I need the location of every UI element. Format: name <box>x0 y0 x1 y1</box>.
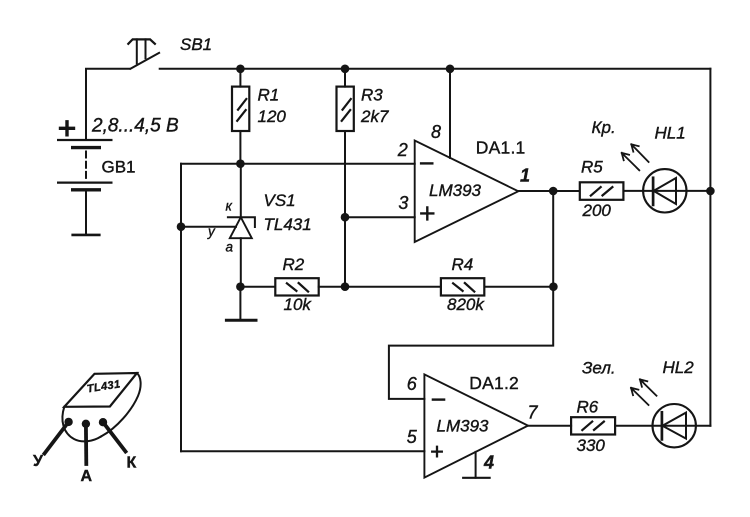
wire R3 top lead <box>344 69 346 87</box>
wire DA1.1 output <box>518 190 579 192</box>
svg-text:10k: 10k <box>284 295 313 314</box>
svg-text:Кр.: Кр. <box>592 118 616 137</box>
svg-text:К: К <box>127 455 137 472</box>
LED HL1 arrow 2 <box>631 144 648 162</box>
resistor R5 body <box>580 182 624 200</box>
wire from R4 node down and to DA1.2 pin6 <box>389 287 553 399</box>
battery GB1 plate short top <box>73 146 100 149</box>
svg-text:HL2: HL2 <box>663 358 695 377</box>
wire TL431 cathode lead <box>240 164 242 218</box>
switch SB1 cap <box>128 39 155 43</box>
svg-text:3: 3 <box>398 193 408 213</box>
wire R3 bottom lead long <box>344 131 346 287</box>
wire top rail right segment <box>160 68 711 70</box>
package leg К <box>103 422 126 451</box>
svg-text:GB1: GB1 <box>102 158 136 177</box>
svg-text:8: 8 <box>431 122 441 142</box>
wire top rail left segment <box>86 69 129 140</box>
package TO-92 bottom arc <box>62 407 101 442</box>
wire R1 top lead <box>239 69 241 87</box>
svg-text:VS1: VS1 <box>264 191 296 210</box>
op-amp DA1.2 triangle <box>424 374 528 477</box>
wire R2 left lead <box>240 286 274 288</box>
svg-text:R6: R6 <box>577 397 599 416</box>
wire right rail <box>709 69 711 426</box>
node dot HL1 rail <box>706 187 715 196</box>
node dot left rail control <box>177 222 186 231</box>
package pin dot 2 <box>82 420 90 428</box>
svg-text:LM393: LM393 <box>429 181 482 200</box>
node dot pin8 top <box>446 65 455 74</box>
wire R2 right lead <box>319 286 345 288</box>
svg-text:R3: R3 <box>361 86 383 105</box>
wire TL431 control (у) <box>181 226 236 228</box>
resistor R3 power marks <box>342 99 351 121</box>
wire R1 bottom lead <box>239 131 241 164</box>
svg-text:а: а <box>226 240 234 255</box>
resistor R4 body <box>441 278 484 295</box>
svg-text:820k: 820k <box>447 295 485 314</box>
node dot R1 top <box>236 65 245 74</box>
svg-text:У: У <box>33 453 44 470</box>
package leg У <box>45 422 69 454</box>
svg-text:120: 120 <box>258 107 287 126</box>
node dot R2 right <box>341 282 350 291</box>
LED HL1 cathode bar <box>652 178 655 205</box>
resistor R6 power marks <box>582 422 604 431</box>
op-amp DA1.2 minus <box>433 398 444 400</box>
svg-text:LM393: LM393 <box>437 417 490 436</box>
LED HL2 arrow 2 <box>640 379 657 395</box>
svg-text:R1: R1 <box>258 86 280 105</box>
battery plus sign <box>61 122 74 135</box>
LED HL1 triangle <box>654 178 676 204</box>
svg-text:7: 7 <box>528 402 539 422</box>
package pin dot 3 <box>99 418 107 426</box>
svg-text:5: 5 <box>407 427 418 447</box>
svg-text:HL1: HL1 <box>655 123 686 142</box>
wire pin3 <box>345 216 415 218</box>
LED HL2 arrow 1 <box>631 388 649 405</box>
wire TL431 anode lead <box>240 238 242 287</box>
svg-text:6: 6 <box>407 374 418 394</box>
package leg А <box>84 424 88 464</box>
node dot R1 bottom junction <box>236 159 245 168</box>
svg-text:TL431: TL431 <box>264 215 312 234</box>
LED HL2 circle <box>653 404 696 447</box>
op-amp DA1.1 plus <box>421 207 433 219</box>
resistor R4 power marks <box>453 283 474 292</box>
ground battery terminal bar <box>73 234 100 237</box>
node dot R3 top <box>341 65 350 74</box>
op-amp DA1.2 plus <box>432 447 442 457</box>
wire R5 to HL1 to rail <box>624 190 710 192</box>
svg-text:DA1.1: DA1.1 <box>476 138 526 158</box>
wire pin4 ground lead <box>475 452 477 478</box>
svg-text:4: 4 <box>483 453 494 473</box>
svg-text:у: у <box>207 224 216 239</box>
svg-text:SB1: SB1 <box>180 35 212 54</box>
svg-text:2,8...4,5 В: 2,8...4,5 В <box>91 116 179 137</box>
resistor R1 power marks <box>237 99 246 121</box>
wire R6 to HL2 to rail <box>615 425 710 427</box>
package pin dot 1 <box>64 418 72 426</box>
ground symbol below TL431 <box>226 319 256 322</box>
svg-text:1: 1 <box>520 165 530 185</box>
svg-text:Зел.: Зел. <box>582 358 616 377</box>
LED HL2 cathode bar <box>661 412 664 439</box>
svg-text:к: к <box>226 199 233 214</box>
package TO-92 top face <box>64 373 137 407</box>
LED HL1 circle <box>643 169 686 212</box>
wire DA1.2 output <box>528 425 571 427</box>
resistor R6 body <box>571 417 615 434</box>
svg-text:330: 330 <box>577 436 606 455</box>
resistor R5 power marks <box>591 187 613 196</box>
zener VS1 TL431 triangle <box>230 217 252 238</box>
wire battery negative lead <box>85 191 87 235</box>
svg-text:DA1.2: DA1.2 <box>469 373 519 393</box>
LED HL2 triangle <box>662 413 686 439</box>
node dot TL431 anode <box>236 282 245 291</box>
wire left rail vertical <box>180 164 182 452</box>
LED HL1 arrow 1 <box>622 153 640 170</box>
wire ground1 lead <box>239 287 241 320</box>
wire R4 right lead <box>485 286 553 288</box>
zener VS1 TL431 cathode bar with hook <box>228 217 255 227</box>
battery GB1 plate long top <box>58 139 111 141</box>
op-amp DA1.1 minus <box>421 162 432 164</box>
svg-text:2: 2 <box>397 140 408 160</box>
battery GB1 plate long bottom <box>58 182 111 184</box>
switch SB1 stem <box>137 39 146 63</box>
svg-text:R2: R2 <box>283 255 305 274</box>
svg-text:2k7: 2k7 <box>360 107 389 126</box>
resistor R2 power marks <box>287 283 308 292</box>
op-amp DA1.1 triangle <box>415 141 519 243</box>
wire R2R4 middle run <box>345 286 441 288</box>
node dot pin3 junction <box>341 213 350 222</box>
wire feedback vertical from output to R4 <box>552 191 554 287</box>
battery GB1 dashed link <box>85 152 87 179</box>
svg-text:200: 200 <box>582 201 612 220</box>
resistor R2 body <box>275 278 318 295</box>
wire pin8 <box>449 69 451 158</box>
battery GB1 plate short bottom <box>73 188 100 191</box>
wire node A row pin2: R1 bottom to op-amp input <box>181 163 415 165</box>
svg-text:R5: R5 <box>581 157 603 176</box>
svg-text:R4: R4 <box>452 255 474 274</box>
switch SB1 blade <box>130 53 159 69</box>
wire pin5 bottom run <box>181 450 424 452</box>
package TO-92 dome arc <box>101 373 141 437</box>
ground symbol at DA1.2 pin4 <box>463 477 489 479</box>
resistor R3 body <box>337 87 354 131</box>
resistor R1 body <box>232 87 249 131</box>
node dot R4 right <box>549 282 558 291</box>
node dot DA1.1 output <box>549 187 558 196</box>
svg-text:А: А <box>81 468 93 485</box>
